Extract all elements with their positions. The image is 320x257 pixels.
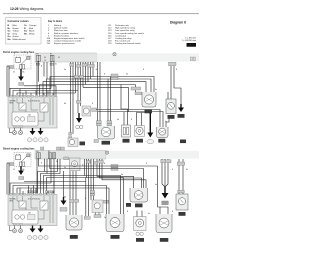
wire — [44, 159, 85, 195]
wires to right bank — [96, 66, 181, 127]
ignition switch 2 diesel — [20, 154, 30, 163]
svg-text:Gn: Gn — [155, 89, 157, 91]
svg-text:Br: Br — [8, 28, 11, 30]
svg-text:30: 30 — [13, 169, 15, 171]
wire — [19, 89, 21, 97]
wire — [41, 159, 61, 195]
fusebox strip 3 diesel — [35, 151, 106, 160]
wire — [8, 163, 10, 195]
wire — [102, 159, 146, 188]
svg-text:BF00: BF00 — [10, 103, 14, 105]
svg-text:Blue: Blue — [13, 25, 18, 27]
wire — [77, 62, 79, 113]
wire code labels petrol — [13, 64, 177, 124]
wire — [50, 159, 107, 169]
wire — [49, 98, 51, 125]
relay K1 — [19, 103, 26, 110]
svg-text:Cooling fan thermal switch: Cooling fan thermal switch — [115, 42, 141, 45]
wire — [93, 159, 95, 200]
diesel bundle ticks — [28, 147, 119, 196]
wire — [22, 98, 24, 103]
wire — [80, 62, 82, 106]
svg-text:Coolant temperature sender: Coolant temperature sender — [54, 40, 82, 43]
svg-text:F2: F2 — [48, 151, 50, 153]
svg-text:B: B — [41, 163, 42, 165]
wire — [69, 171, 71, 215]
coolant sensor diesel — [84, 200, 108, 219]
wire — [39, 159, 111, 166]
svg-text:B: B — [172, 169, 173, 171]
svg-text:Ge: Ge — [55, 64, 57, 66]
svg-text:30: 30 — [13, 72, 15, 74]
wire — [17, 196, 19, 201]
wire — [17, 93, 76, 97]
temp switch 106 — [76, 101, 97, 117]
svg-text:Battery: Battery — [54, 24, 62, 27]
earth point E2 — [105, 151, 108, 154]
wire — [49, 196, 51, 223]
fuse F3 diesel — [52, 153, 55, 159]
wire — [38, 210, 44, 219]
wire — [136, 211, 138, 217]
wire — [43, 196, 45, 201]
svg-text:Mu: Mu — [23, 72, 25, 74]
chevron arrow diesel right — [162, 187, 169, 205]
wire — [85, 62, 87, 85]
wires into fan 1 — [70, 171, 76, 215]
relay K2 diesel — [40, 201, 48, 210]
svg-text:Diagram 6: Diagram 6 — [170, 21, 186, 25]
thermal switch 35 — [166, 99, 176, 119]
wire — [10, 61, 51, 96]
svg-text:Twin speed cooling fan switch: Twin speed cooling fan switch — [115, 32, 145, 35]
wire — [53, 61, 55, 96]
output arrow B diesel — [38, 226, 44, 233]
fuse F1 on strip — [36, 54, 40, 62]
svg-text:15: 15 — [44, 60, 46, 62]
svg-text:B: B — [92, 103, 93, 105]
svg-text:F2: F2 — [50, 54, 52, 56]
svg-text:Engine temperature twin switch: Engine temperature twin switch — [54, 37, 85, 40]
wire — [43, 93, 45, 97]
wire — [85, 175, 121, 177]
earth point E1 — [113, 53, 116, 56]
svg-text:Sw: Sw — [117, 119, 120, 121]
wire — [75, 171, 77, 215]
wire — [90, 62, 92, 79]
wire — [38, 159, 58, 195]
twin fan unit diesel — [126, 176, 148, 207]
svg-text:119: 119 — [108, 43, 112, 45]
petrol bottom connector labels — [94, 140, 99, 143]
svg-text:118: 118 — [28, 213, 31, 215]
wire — [38, 112, 44, 121]
battery dashed enclosure diesel — [14, 153, 31, 167]
svg-text:Gn: Gn — [186, 169, 188, 171]
wire — [72, 171, 74, 215]
connector ticks on bundle — [36, 63, 94, 78]
svg-text:B: B — [143, 69, 144, 71]
wire — [22, 93, 24, 97]
svg-text:Or: Or — [24, 25, 27, 27]
wire — [47, 159, 87, 195]
wire — [20, 104, 24, 108]
wire — [7, 65, 14, 67]
svg-text:B: B — [104, 74, 105, 76]
wire — [164, 159, 166, 190]
fan motor 116c — [157, 127, 169, 143]
wire — [12, 196, 14, 210]
svg-text:30 15 87 86 85 30a: 30 15 87 86 85 30a — [28, 101, 40, 103]
wire — [20, 69, 22, 77]
ground symbols under fusebox — [10, 128, 23, 135]
svg-text:Sw: Sw — [64, 69, 67, 71]
svg-text:B: B — [41, 66, 42, 68]
wire — [20, 202, 24, 206]
wire — [97, 159, 134, 176]
svg-text:Mu: Mu — [64, 197, 66, 199]
svg-text:Yellow: Yellow — [13, 31, 20, 33]
wire — [90, 159, 92, 200]
wire — [178, 159, 180, 194]
inner module 118 — [12, 112, 38, 126]
wire — [165, 159, 168, 187]
fusebox strip 3 — [35, 53, 97, 62]
svg-text:Gn: Gn — [155, 184, 157, 186]
left feed wires — [7, 66, 53, 97]
wire — [38, 61, 40, 81]
wire — [30, 188, 32, 195]
svg-text:High speed fan relay: High speed fan relay — [115, 27, 136, 30]
mid arrow to engine — [76, 113, 83, 129]
wire — [121, 85, 128, 126]
fusebox strip extension — [97, 53, 200, 61]
inner wires — [13, 98, 53, 125]
wire — [167, 92, 169, 99]
wire — [20, 166, 22, 170]
wire — [22, 191, 24, 195]
wire — [98, 112, 163, 128]
fuse links diesel — [20, 162, 25, 166]
svg-text:Built-in systems interface: Built-in systems interface — [54, 32, 79, 35]
wire — [19, 188, 21, 195]
wire — [50, 77, 154, 97]
wire — [52, 98, 54, 125]
wire — [162, 159, 165, 187]
wire — [43, 82, 146, 97]
wire — [141, 211, 143, 217]
fuse links in enclosure — [20, 65, 25, 69]
wire bundle below strip — [71, 62, 94, 134]
wire — [120, 176, 122, 215]
wire — [17, 188, 109, 195]
wire — [41, 203, 46, 209]
svg-text:B: B — [127, 211, 128, 213]
svg-text:Brown: Brown — [13, 27, 20, 30]
wire — [17, 98, 19, 103]
svg-text:30: 30 — [44, 57, 46, 59]
bottom row: fan motor 116b — [98, 126, 115, 145]
wire — [47, 91, 49, 97]
fuse F1 diesel — [36, 151, 40, 159]
svg-text:Cooling fan relay: Cooling fan relay — [115, 37, 132, 40]
svg-text:Connector colours: Connector colours — [8, 20, 30, 23]
svg-text:B: B — [85, 198, 86, 200]
terminal labels 30 15 — [44, 57, 60, 62]
wire — [30, 93, 32, 97]
wire — [8, 66, 10, 97]
battery and ignition dashed enclosure — [14, 55, 31, 69]
diagram number title — [170, 21, 196, 48]
fan motor 116a — [142, 92, 156, 113]
wire — [28, 186, 30, 195]
wire — [97, 62, 99, 126]
wire — [82, 62, 84, 87]
earth id ovals diesel — [27, 235, 48, 239]
wire — [40, 85, 136, 97]
wire — [47, 191, 49, 195]
connector ticks mid — [96, 62, 176, 125]
svg-text:BF00: BF00 — [10, 201, 14, 203]
fuse F2 on strip — [50, 54, 54, 62]
fan motor 116 d1 — [66, 215, 82, 239]
wire — [53, 182, 55, 195]
fan motor 116 d2 — [106, 214, 124, 239]
fan motor 116 d3 — [156, 214, 172, 242]
svg-text:Gn: Gn — [165, 121, 167, 123]
mid arrow diesel — [63, 171, 65, 197]
engine fusebox relay unit 5 diesel — [8, 193, 57, 225]
wire from ignition to bus — [10, 61, 111, 126]
wire — [75, 62, 77, 93]
wire — [31, 196, 38, 208]
svg-text:F4: F4 — [36, 151, 38, 153]
wire — [43, 62, 45, 77]
svg-text:Mu: Mu — [23, 169, 25, 171]
wire — [10, 159, 51, 195]
wire — [182, 159, 184, 194]
wire — [12, 98, 14, 112]
svg-text:Mu: Mu — [64, 103, 66, 105]
wire — [52, 191, 54, 195]
wire — [6, 163, 8, 195]
diesel wire bundle — [44, 159, 147, 216]
diesel left wires — [7, 159, 158, 214]
svg-text:Preheater unit: Preheater unit — [115, 24, 129, 27]
svg-text:Black: Black — [29, 31, 35, 33]
wire — [166, 119, 169, 128]
svg-text:Gn: Gn — [148, 213, 150, 215]
wire — [25, 110, 27, 112]
svg-text:Diesel engine cooling fans: Diesel engine cooling fans — [3, 147, 35, 150]
battery 1 diesel — [16, 154, 21, 160]
svg-text:White: White — [29, 32, 35, 35]
svg-text:Ge: Ge — [56, 161, 58, 163]
wire — [106, 186, 108, 215]
svg-text:Sw: Sw — [24, 31, 27, 33]
output arrow A — [30, 128, 36, 135]
svg-text:Key to items: Key to items — [48, 20, 63, 23]
right arrow — [178, 104, 185, 118]
wire — [7, 162, 14, 164]
wire — [107, 169, 144, 189]
wire — [35, 188, 37, 195]
engine fusebox relay unit 5 — [8, 95, 57, 128]
svg-text:B: B — [146, 163, 147, 165]
wire — [13, 91, 78, 97]
wire — [46, 159, 48, 174]
connector marks right — [190, 57, 195, 61]
output arrow A diesel — [30, 226, 36, 233]
wire — [158, 166, 169, 214]
wire — [16, 153, 18, 156]
resistor block 2 — [122, 125, 131, 143]
wire — [123, 112, 125, 125]
svg-text:118: 118 — [28, 115, 31, 117]
svg-text:Sw: Sw — [121, 174, 124, 176]
wire — [141, 113, 143, 126]
staircase feed wires — [40, 77, 155, 126]
ground symbols diesel — [10, 226, 23, 233]
svg-text:F4: F4 — [36, 54, 38, 56]
engine arrow bottom — [147, 113, 154, 144]
fuse F2 diesel — [48, 151, 52, 159]
wire — [47, 79, 152, 97]
svg-text:B: B — [172, 211, 173, 213]
svg-text:Multicoloured: Multicoloured — [13, 38, 27, 41]
wire — [35, 91, 37, 97]
connector colours legend box — [6, 18, 42, 45]
wire — [174, 66, 181, 104]
wire — [53, 159, 55, 186]
wire — [107, 79, 109, 126]
wire — [72, 62, 74, 134]
svg-text:B: B — [176, 69, 177, 71]
output arrow B — [38, 128, 44, 135]
wires into resistor / pump — [137, 166, 168, 217]
wire — [123, 178, 125, 215]
wire — [33, 186, 35, 195]
wire — [110, 77, 112, 127]
wire — [46, 62, 48, 79]
wire — [108, 188, 110, 214]
wire — [36, 61, 38, 96]
triple wires to arrow — [162, 159, 168, 190]
coolant sender 108 — [68, 133, 85, 147]
arrow label dark — [180, 140, 186, 144]
wire — [52, 196, 54, 223]
wire — [63, 171, 65, 197]
key to items list — [47, 20, 145, 45]
wire — [9, 67, 14, 69]
relay K2 — [40, 103, 48, 112]
svg-text:30 15 87 86 85 30a: 30 15 87 86 85 30a — [28, 199, 40, 201]
inner module 118 diesel — [12, 210, 38, 224]
wire — [31, 98, 38, 110]
svg-text:Gr: Gr — [8, 33, 11, 35]
svg-text:Wiring diagrams: Wiring diagrams — [20, 7, 44, 11]
wire — [24, 181, 86, 183]
wire — [170, 66, 172, 99]
wire — [44, 159, 46, 172]
wire — [16, 56, 18, 59]
thermal switch 119 diesel — [179, 159, 183, 194]
wire — [25, 208, 27, 210]
wire — [87, 62, 89, 82]
wire — [99, 62, 101, 126]
wire — [70, 62, 72, 134]
svg-text:H46: H46 — [189, 43, 194, 47]
supply arrow petrol — [18, 69, 24, 86]
wire — [83, 87, 128, 112]
wire — [13, 186, 107, 195]
wire — [110, 165, 158, 167]
wire — [25, 91, 27, 97]
svg-text:12•26: 12•26 — [10, 7, 19, 11]
wire — [85, 178, 87, 217]
svg-text:Low speed fan relay: Low speed fan relay — [115, 29, 135, 32]
wire — [9, 164, 14, 166]
svg-text:Green: Green — [13, 35, 20, 38]
wire — [52, 93, 54, 97]
svg-text:Orange: Orange — [29, 24, 37, 27]
supply arrow diesel — [18, 167, 24, 180]
svg-text:110: 110 — [47, 43, 51, 45]
wire — [19, 153, 21, 156]
svg-text:30: 30 — [58, 57, 60, 59]
wire — [43, 98, 45, 103]
wire — [6, 66, 8, 97]
wire — [159, 207, 161, 214]
svg-text:B: B — [104, 163, 105, 165]
battery 1 — [16, 57, 21, 63]
pump 111 — [135, 126, 145, 143]
wire — [19, 56, 21, 59]
wire — [41, 105, 46, 111]
svg-text:Engine speed sensor: Engine speed sensor — [54, 42, 75, 45]
svg-text:2 = 150/330 ohm: 2 = 150/330 ohm — [182, 40, 197, 42]
wire — [88, 159, 90, 216]
wire — [87, 177, 124, 179]
svg-text:B: B — [131, 119, 132, 121]
wire code labels diesel — [13, 161, 188, 219]
svg-text:Ignition switch: Ignition switch — [54, 27, 69, 30]
wire — [24, 86, 56, 97]
ignition switch 2 — [20, 56, 30, 65]
svg-text:Fan control unit: Fan control unit — [115, 40, 130, 43]
connector tick thermal switch — [178, 190, 185, 193]
page header — [3, 7, 199, 14]
wire — [22, 196, 24, 201]
wire — [100, 159, 142, 188]
earth id ovals — [27, 138, 48, 142]
svg-text:Sw: Sw — [126, 74, 129, 76]
pump device diesel — [134, 217, 147, 242]
wire — [137, 113, 151, 126]
wire — [96, 110, 160, 128]
fusebox strip extension diesel — [106, 151, 199, 159]
wire — [92, 62, 94, 77]
svg-text:Petrol engine cooling fans: Petrol engine cooling fans — [3, 51, 35, 54]
relay K1 diesel — [19, 201, 26, 208]
relay 118 on strip — [64, 157, 80, 171]
wire — [36, 159, 38, 195]
inner wires diesel — [13, 196, 53, 223]
